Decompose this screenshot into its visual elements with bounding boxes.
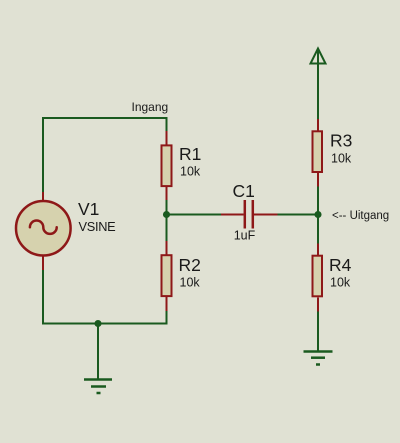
svg-text:10k: 10k: [331, 152, 352, 166]
svg-text:V1: V1: [78, 199, 99, 219]
svg-text:10k: 10k: [330, 276, 351, 290]
svg-text:R4: R4: [329, 255, 352, 275]
svg-text:<-- Uitgang: <-- Uitgang: [332, 210, 389, 222]
svg-text:R2: R2: [179, 255, 201, 275]
svg-text:1uF: 1uF: [234, 229, 256, 243]
svg-text:10k: 10k: [180, 276, 201, 290]
svg-text:C1: C1: [233, 181, 255, 201]
svg-text:VSINE: VSINE: [79, 219, 116, 234]
svg-text:R3: R3: [330, 130, 352, 150]
svg-text:R1: R1: [179, 144, 201, 164]
svg-text:10k: 10k: [180, 165, 201, 179]
svg-text:Ingang: Ingang: [132, 100, 169, 114]
